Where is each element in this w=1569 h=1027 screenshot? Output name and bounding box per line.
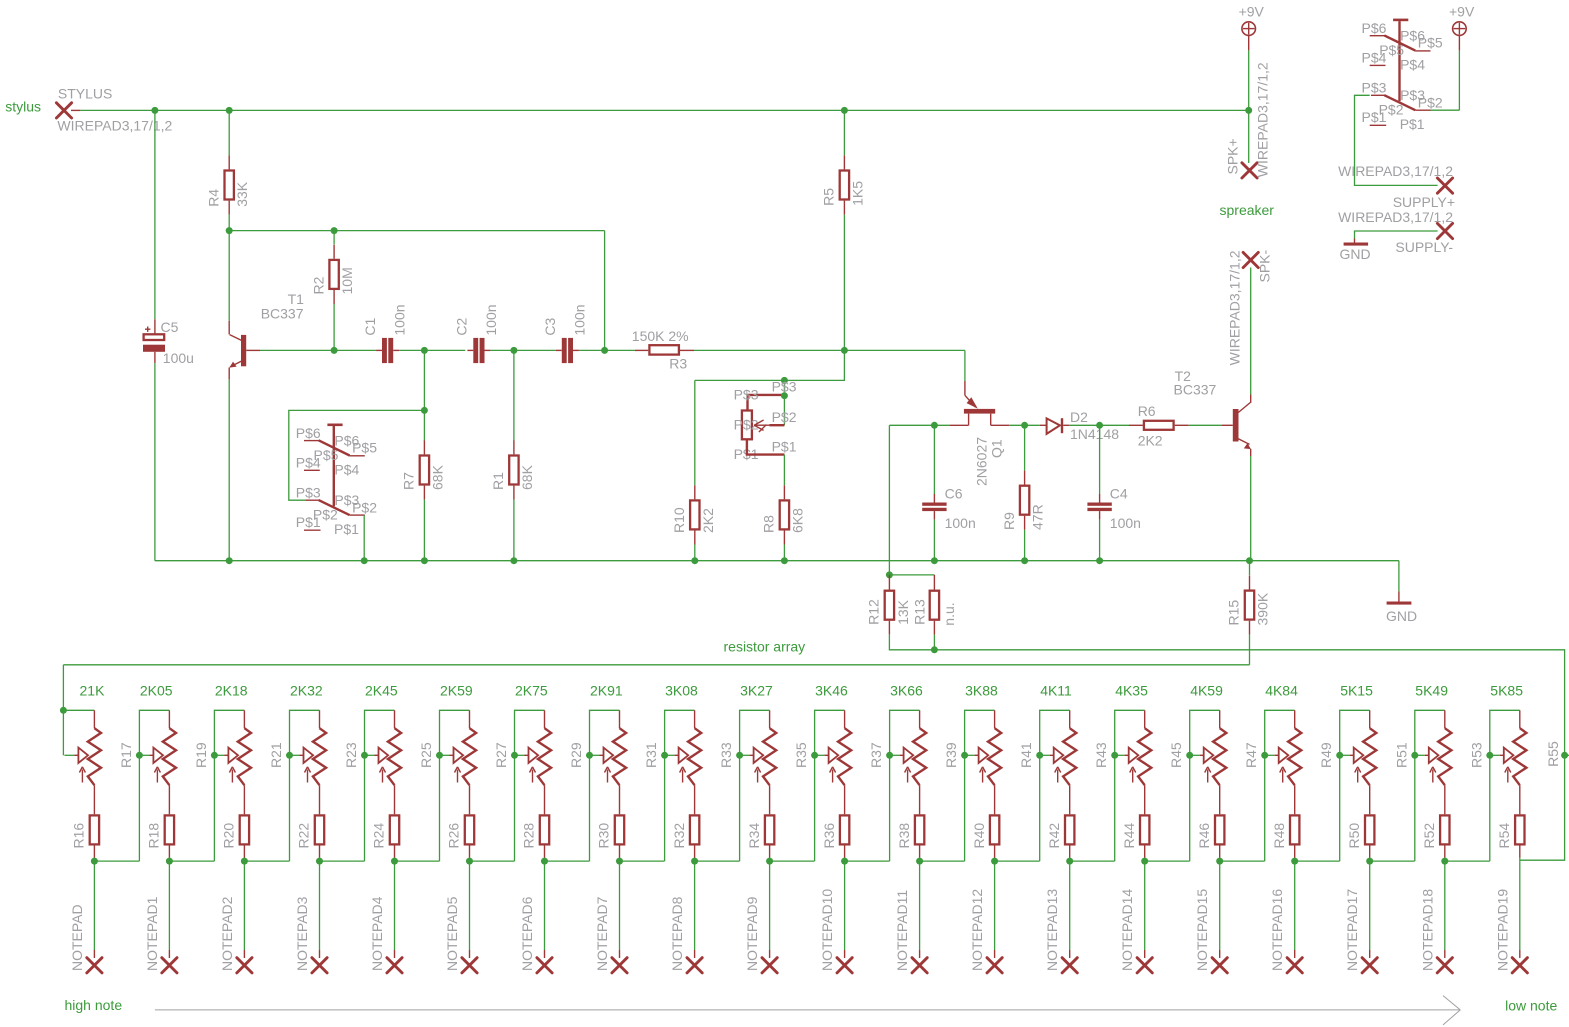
wire ladder link to next column xyxy=(169,860,214,862)
svg-text:R50: R50 xyxy=(1346,823,1362,849)
wire to NOTEPAD10 pad xyxy=(844,861,846,950)
svg-text:GND: GND xyxy=(1386,608,1417,624)
svg-text:+9V: +9V xyxy=(1449,3,1475,19)
svg-text:100n: 100n xyxy=(1110,515,1141,531)
svg-text:STYLUS: STYLUS xyxy=(58,85,112,101)
svg-text:P$4: P$4 xyxy=(1400,57,1425,73)
wire R28 bottom xyxy=(544,858,546,862)
wire down to R12 node xyxy=(888,425,890,575)
wire column 12 tap line xyxy=(890,710,920,861)
junction xyxy=(136,752,143,759)
junction xyxy=(991,858,998,865)
junction xyxy=(466,858,473,865)
wire column 17 tap line xyxy=(1265,710,1295,861)
wire column 19 tap line xyxy=(1415,710,1445,861)
svg-text:P$2: P$2 xyxy=(352,500,377,516)
svg-text:R13: R13 xyxy=(912,599,928,625)
wire resistor array top rail xyxy=(63,664,1249,666)
svg-text:R21: R21 xyxy=(268,742,284,768)
wire R4-R2-C3 node horizontal xyxy=(229,230,604,232)
wire trimmer to R54 xyxy=(1519,785,1521,814)
svg-text:R23: R23 xyxy=(343,742,359,768)
svg-text:SPK+: SPK+ xyxy=(1224,138,1240,174)
junction xyxy=(1245,107,1252,114)
trimmer adjust mark xyxy=(1282,770,1284,783)
trimmer R(col1) 21K xyxy=(93,710,95,728)
svg-text:100n: 100n xyxy=(483,304,499,335)
diode D2 1N4148 xyxy=(1040,424,1047,426)
svg-text:P$3: P$3 xyxy=(772,378,797,394)
svg-text:1N4148: 1N4148 xyxy=(1070,426,1119,442)
svg-text:R1: R1 xyxy=(490,472,506,490)
trimmer adjust mark xyxy=(1507,770,1509,783)
node SPK+ wirepad X xyxy=(1242,163,1257,178)
svg-text:4K35: 4K35 xyxy=(1115,682,1148,698)
resistor R13 n.u. xyxy=(933,575,935,590)
svg-text:R42: R42 xyxy=(1046,823,1062,849)
resistor R4 33K xyxy=(228,155,230,169)
svg-text:100u: 100u xyxy=(163,350,194,366)
trimmer R51 5K49 xyxy=(1444,710,1446,728)
resistor R20 xyxy=(240,815,249,844)
node NOTEPAD18 wirepad X xyxy=(1437,958,1452,973)
wire ladder link to next column xyxy=(1295,860,1340,862)
wire C3 to R3 xyxy=(579,349,635,351)
wire to NOTEPAD12 pad xyxy=(994,861,996,950)
wire to NOTEPAD2 pad xyxy=(243,861,245,950)
svg-text:R35: R35 xyxy=(793,742,809,768)
wire R50 bottom xyxy=(1369,858,1371,862)
node NOTEPAD9 wirepad X xyxy=(762,958,777,973)
junction xyxy=(781,377,788,384)
wire to NOTEPAD9 pad xyxy=(769,861,771,950)
junction xyxy=(1021,557,1028,564)
resistor R32 xyxy=(690,815,699,844)
svg-text:R22: R22 xyxy=(296,823,312,849)
junction xyxy=(736,752,743,759)
wire to NOTEPAD pad xyxy=(93,861,95,950)
junction xyxy=(541,858,548,865)
svg-text:150K 2%: 150K 2% xyxy=(632,328,689,344)
resistor R2 10M xyxy=(333,245,335,259)
trimmer wiper arrow xyxy=(365,754,375,756)
wire R2 top xyxy=(333,231,335,245)
junction xyxy=(1366,858,1373,865)
wire S2 P$2 to +9V xyxy=(1431,109,1460,111)
svg-text:SUPPLY+: SUPPLY+ xyxy=(1393,194,1455,210)
wire T2 emitter to rail xyxy=(1250,456,1252,561)
svg-text:1K5: 1K5 xyxy=(849,181,865,206)
wire column 18 tap line xyxy=(1340,710,1370,861)
note direction arrow xyxy=(155,1009,1460,1011)
node NOTEPAD6 wirepad X xyxy=(537,958,552,973)
junction xyxy=(601,347,608,354)
resistor R10 2K2 xyxy=(694,485,696,499)
wire ladder link to next column xyxy=(320,860,365,862)
svg-text:spreaker: spreaker xyxy=(1220,202,1275,218)
trimmer adjust mark xyxy=(81,770,83,783)
resistor R16 xyxy=(90,815,99,844)
junction xyxy=(1111,752,1118,759)
svg-text:R27: R27 xyxy=(493,742,509,768)
junction xyxy=(691,557,698,564)
trimmer R41 4K11 xyxy=(1069,710,1071,728)
wire R26 bottom xyxy=(469,858,471,862)
trimmer adjust mark xyxy=(457,770,459,783)
trimmer wiper arrow xyxy=(740,754,750,756)
wire trimmer to R24 xyxy=(394,785,396,814)
svg-text:R46: R46 xyxy=(1196,823,1212,849)
resistor R24 xyxy=(390,815,399,844)
trimmer adjust mark xyxy=(231,770,233,783)
svg-text:NOTEPAD15: NOTEPAD15 xyxy=(1194,889,1210,971)
svg-text:WIREPAD3,17/1,2: WIREPAD3,17/1,2 xyxy=(1254,62,1270,177)
svg-text:NOTEPAD16: NOTEPAD16 xyxy=(1269,889,1285,971)
resistor R7 68K xyxy=(423,440,425,454)
junction xyxy=(211,752,218,759)
trimmer adjust mark xyxy=(532,770,534,783)
wire to NOTEPAD14 pad xyxy=(1144,861,1146,950)
junction xyxy=(511,752,518,759)
wire R12-R13 top link xyxy=(889,574,934,576)
svg-text:NOTEPAD1: NOTEPAD1 xyxy=(144,896,160,971)
junction xyxy=(361,557,368,564)
trimmer adjust mark xyxy=(682,770,684,783)
node NOTEPAD3 wirepad X xyxy=(312,958,327,973)
ground GND top right xyxy=(1354,239,1356,243)
wire trimmer to R44 xyxy=(1144,785,1146,814)
wire ladder link to next column xyxy=(94,860,139,862)
switch S2 6-pin power xyxy=(1393,19,1408,22)
junction xyxy=(931,557,938,564)
resistor R6 2K2 xyxy=(1129,424,1143,426)
svg-text:C1: C1 xyxy=(362,317,378,335)
trimmer adjust mark xyxy=(1057,770,1059,783)
wire +9V to rail xyxy=(1248,50,1250,110)
wire timbre switch loop xyxy=(423,350,425,410)
wire Q1 gate to R9/D2 node xyxy=(1009,424,1040,426)
junction xyxy=(1186,752,1193,759)
wire trimmer to R38 xyxy=(919,785,921,814)
wire +9V right down xyxy=(1458,50,1460,110)
junction xyxy=(421,557,428,564)
svg-text:5K15: 5K15 xyxy=(1340,682,1373,698)
svg-text:P$3: P$3 xyxy=(734,387,759,403)
svg-text:P$4: P$4 xyxy=(1362,50,1387,66)
trimmer wiper arrow xyxy=(214,754,224,756)
svg-text:SUPPLY-: SUPPLY- xyxy=(1395,239,1453,255)
ground GND xyxy=(1398,591,1400,601)
svg-text:R48: R48 xyxy=(1271,823,1287,849)
wire R10 top xyxy=(694,380,696,485)
transistor Q1 2N6027 xyxy=(964,381,966,395)
wire ladder link to next column xyxy=(1070,860,1115,862)
svg-text:D2: D2 xyxy=(1070,409,1088,425)
junction xyxy=(421,347,428,354)
wire +9V top rail xyxy=(80,109,1248,111)
svg-text:4K84: 4K84 xyxy=(1265,682,1298,698)
resistor R5 1K5 xyxy=(843,155,845,169)
junction xyxy=(661,752,668,759)
wire to NOTEPAD19 pad xyxy=(1519,861,1521,950)
wire R6 to T2 base xyxy=(1189,424,1222,426)
junction xyxy=(586,752,593,759)
trimmer P wiper arrow P$2 xyxy=(754,424,769,426)
junction xyxy=(316,858,323,865)
svg-text:4K11: 4K11 xyxy=(1040,682,1072,698)
wire trimmer to R34 xyxy=(769,785,771,814)
junction xyxy=(1486,752,1493,759)
trimmer wiper arrow xyxy=(64,754,74,756)
junction xyxy=(60,707,67,714)
svg-text:68K: 68K xyxy=(519,464,535,490)
svg-text:P$4: P$4 xyxy=(334,462,359,478)
svg-text:2N6027: 2N6027 xyxy=(974,437,990,486)
wire R16 bottom xyxy=(93,858,95,862)
svg-text:R41: R41 xyxy=(1018,742,1034,768)
junction xyxy=(1096,557,1103,564)
wire column 2 tap line xyxy=(139,710,169,861)
trimmer R27 2K75 xyxy=(544,710,546,728)
junction xyxy=(226,557,233,564)
resistor R15 390K xyxy=(1249,576,1251,590)
wire R13 bottom xyxy=(933,635,935,650)
svg-text:R32: R32 xyxy=(671,823,687,849)
wire C1 to C2 xyxy=(399,349,465,351)
trimmer R43 4K35 xyxy=(1144,710,1146,728)
trimmer wiper arrow xyxy=(1340,754,1350,756)
svg-text:NOTEPAD8: NOTEPAD8 xyxy=(669,896,685,971)
trimmer wiper arrow xyxy=(965,754,975,756)
wire ladder link to next column xyxy=(845,860,890,862)
wire trimmer to R32 xyxy=(694,785,696,814)
svg-text:3K46: 3K46 xyxy=(815,682,848,698)
junction xyxy=(841,347,848,354)
trimmer adjust mark xyxy=(607,770,609,783)
trimmer R35 3K46 xyxy=(844,710,846,728)
resistor R12 13K xyxy=(888,575,890,590)
svg-text:3K27: 3K27 xyxy=(740,682,773,698)
wire stylus pad stub xyxy=(71,109,80,111)
wire R1 bottom xyxy=(513,500,515,561)
wire trimmer to R46 xyxy=(1219,785,1221,814)
resistor R30 xyxy=(615,815,624,844)
trimmer wiper arrow xyxy=(1265,754,1275,756)
resistor R1 68K xyxy=(513,440,515,454)
svg-text:21K: 21K xyxy=(80,682,106,698)
svg-text:47R: 47R xyxy=(1030,504,1046,530)
wire R9 bottom xyxy=(1024,530,1026,561)
junction xyxy=(781,392,788,399)
resistor R18 xyxy=(165,815,174,844)
svg-text:R30: R30 xyxy=(596,823,612,849)
svg-text:R29: R29 xyxy=(568,742,584,768)
wire R7 bottom xyxy=(423,500,425,561)
junction xyxy=(1036,752,1043,759)
wire trimmer to R40 xyxy=(994,785,996,814)
wire C5 bottom to ground rail xyxy=(154,363,156,561)
wire to NOTEPAD5 pad xyxy=(469,861,471,950)
svg-text:R15: R15 xyxy=(1226,600,1242,626)
node NOTEPAD5 wirepad X xyxy=(462,958,477,973)
capacitor C1 100n xyxy=(382,338,387,363)
svg-text:3K88: 3K88 xyxy=(965,682,998,698)
node NOTEPAD wirepad X xyxy=(87,958,102,973)
node NOTEPAD7 wirepad X xyxy=(612,958,627,973)
node SUPPLY- wirepad X xyxy=(1437,223,1452,238)
junction xyxy=(886,752,893,759)
wire ladder link to next column xyxy=(770,860,815,862)
svg-text:R49: R49 xyxy=(1318,742,1334,768)
wire ladder link to next column xyxy=(470,860,515,862)
wire R10 bottom xyxy=(694,545,696,561)
svg-text:3K08: 3K08 xyxy=(665,682,698,698)
resistor R36 xyxy=(840,815,849,844)
junction xyxy=(1141,858,1148,865)
svg-text:NOTEPAD18: NOTEPAD18 xyxy=(1419,889,1435,971)
wire column 10 tap line xyxy=(740,710,770,861)
svg-text:NOTEPAD10: NOTEPAD10 xyxy=(819,889,835,971)
wire to NOTEPAD3 pad xyxy=(319,861,321,950)
trimmer wiper arrow xyxy=(890,754,900,756)
wire ladder link to next column xyxy=(1445,860,1490,862)
svg-text:Q1: Q1 xyxy=(989,439,1005,458)
svg-text:R34: R34 xyxy=(746,823,762,849)
trimmer adjust mark xyxy=(1207,770,1209,783)
svg-text:P$1: P$1 xyxy=(1362,109,1387,125)
resistor R48 xyxy=(1290,815,1299,844)
svg-text:5K49: 5K49 xyxy=(1415,682,1448,698)
wire to NOTEPAD16 pad xyxy=(1294,861,1296,950)
node NOTEPAD8 wirepad X xyxy=(687,958,702,973)
wire T1 collector xyxy=(228,231,230,321)
wire ladder link to next column xyxy=(920,860,965,862)
wire column 1 tap from top rail xyxy=(62,665,64,756)
wire trimmer to R48 xyxy=(1294,785,1296,814)
wire C4 top xyxy=(1099,425,1101,494)
svg-text:C3: C3 xyxy=(542,317,558,335)
trimmer R23 2K45 xyxy=(394,710,396,728)
svg-text:R36: R36 xyxy=(821,823,837,849)
wire column 13 tap line xyxy=(965,710,995,861)
trimmer adjust mark xyxy=(907,770,909,783)
svg-text:resistor array: resistor array xyxy=(724,639,806,655)
trimmer adjust mark xyxy=(1357,770,1359,783)
svg-text:2K59: 2K59 xyxy=(440,682,473,698)
wire to NOTEPAD18 pad xyxy=(1444,861,1446,950)
svg-text:R10: R10 xyxy=(671,507,687,533)
wire R46 bottom xyxy=(1219,858,1221,862)
wire Q1 cathode node xyxy=(889,424,949,426)
svg-text:NOTEPAD5: NOTEPAD5 xyxy=(444,896,460,971)
node NOTEPAD19 wirepad X xyxy=(1512,958,1527,973)
trimmer P body xyxy=(742,411,752,440)
wire R32 bottom xyxy=(694,858,696,862)
wire ladder link to next column xyxy=(695,860,740,862)
wire ladder link to next column xyxy=(545,860,590,862)
svg-text:R9: R9 xyxy=(1001,512,1017,530)
svg-text:3K66: 3K66 xyxy=(890,682,923,698)
wire R34 bottom xyxy=(769,858,771,862)
wire column 3 tap line xyxy=(214,710,244,861)
wire R7 top xyxy=(423,410,425,440)
trimmer wiper arrow xyxy=(1490,754,1500,756)
wire T1 base row xyxy=(260,349,376,351)
svg-text:P$5: P$5 xyxy=(352,439,377,455)
svg-text:P$1: P$1 xyxy=(1400,116,1425,132)
wire R44 bottom xyxy=(1144,858,1146,862)
switch S1 6-pin xyxy=(327,424,342,427)
svg-text:100n: 100n xyxy=(571,304,587,335)
junction xyxy=(1096,422,1103,429)
wire T1 emitter to ground rail xyxy=(228,380,230,561)
trimmer wiper arrow xyxy=(665,754,675,756)
svg-text:P$1: P$1 xyxy=(772,438,797,454)
trimmer R37 3K66 xyxy=(919,710,921,728)
resistor R26 xyxy=(465,815,474,844)
svg-text:2K45: 2K45 xyxy=(365,682,398,698)
svg-text:R51: R51 xyxy=(1393,742,1409,768)
svg-text:P$5: P$5 xyxy=(1418,35,1443,51)
junction xyxy=(1441,858,1448,865)
junction xyxy=(916,858,923,865)
junction xyxy=(226,227,233,234)
wire switch P$2 down to rail xyxy=(363,515,365,561)
svg-text:+9V: +9V xyxy=(1239,3,1265,19)
junction xyxy=(331,227,338,234)
svg-text:NOTEPAD13: NOTEPAD13 xyxy=(1044,889,1060,971)
svg-text:R4: R4 xyxy=(205,189,221,207)
node SUPPLY+ wirepad X xyxy=(1437,178,1452,193)
junction xyxy=(691,858,698,865)
svg-text:NOTEPAD12: NOTEPAD12 xyxy=(969,889,985,971)
trimmer P P$3 pin xyxy=(748,395,784,410)
trimmer R53 5K85 xyxy=(1519,710,1521,728)
junction xyxy=(1021,422,1028,429)
junction xyxy=(241,858,248,865)
svg-text:WIREPAD3,17/1,2: WIREPAD3,17/1,2 xyxy=(1227,250,1243,365)
wire pot feed from R5 node xyxy=(695,350,845,380)
wire column 4 tap line xyxy=(290,710,320,861)
trimmer wiper arrow xyxy=(515,754,525,756)
wire trimmer to R18 xyxy=(168,785,170,814)
wire R5 top xyxy=(843,110,845,155)
wire column 9 tap line xyxy=(665,710,695,861)
junction xyxy=(766,858,773,865)
svg-text:R3: R3 xyxy=(669,356,687,372)
svg-text:R28: R28 xyxy=(521,823,537,849)
svg-text:NOTEPAD9: NOTEPAD9 xyxy=(744,896,760,971)
wire R4 top xyxy=(228,110,230,155)
wire R52 bottom xyxy=(1444,858,1446,862)
svg-text:R2: R2 xyxy=(310,276,326,294)
svg-text:C2: C2 xyxy=(454,317,470,335)
svg-text:C6: C6 xyxy=(945,486,963,502)
svg-text:33K: 33K xyxy=(234,181,250,207)
wire trimmer to R28 xyxy=(544,785,546,814)
wire trimmer to R20 xyxy=(243,785,245,814)
wire C4 bottom xyxy=(1099,520,1101,561)
junction xyxy=(931,422,938,429)
wire R2 bottom xyxy=(333,304,335,350)
wire trimmer to R16 xyxy=(93,785,95,814)
node NOTEPAD16 wirepad X xyxy=(1287,958,1302,973)
junction xyxy=(1216,858,1223,865)
svg-text:P$6: P$6 xyxy=(1362,20,1387,36)
wire R1 top xyxy=(513,350,515,440)
capacitor C3 100n xyxy=(562,338,567,363)
svg-text:P$3: P$3 xyxy=(1362,79,1387,95)
